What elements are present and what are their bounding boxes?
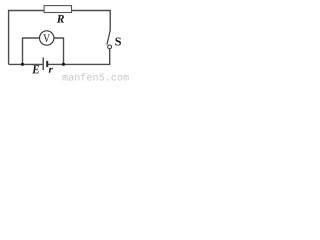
battery long plate xyxy=(42,57,44,70)
resistor R xyxy=(44,6,71,13)
label r xyxy=(49,68,53,73)
wire: bottom, left of battery xyxy=(9,63,43,65)
battery short thick plate xyxy=(46,61,48,67)
watermark manfen5.com xyxy=(63,73,129,81)
switch S contact circle xyxy=(108,45,112,49)
voltmeter branch wire left xyxy=(23,38,41,64)
node junction right xyxy=(62,63,65,66)
wire: lower right segment xyxy=(109,49,111,65)
voltmeter branch wire right xyxy=(53,38,63,64)
node junction left xyxy=(21,63,24,66)
wire: left side + top + upper right segment xyxy=(9,11,111,65)
switch S blade xyxy=(107,30,110,45)
label V xyxy=(43,34,50,42)
wire: bottom, right of battery xyxy=(48,63,111,65)
label E xyxy=(32,65,39,73)
label R xyxy=(57,15,64,23)
voltmeter circle xyxy=(40,31,54,45)
label S xyxy=(115,38,121,46)
